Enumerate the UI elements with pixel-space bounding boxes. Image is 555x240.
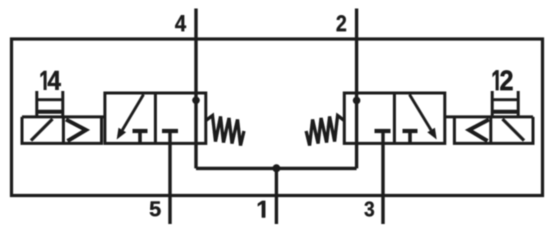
valve V1 blocked port T2 (port 5): [162, 129, 178, 133]
port 3 line: [381, 131, 384, 224]
solenoid coil stroke 12: [503, 119, 525, 141]
pilot arrowhead 14: [66, 120, 86, 142]
port 4 line: [194, 9, 197, 169]
manual override 14: [37, 91, 63, 117]
valve V1 return spring: [206, 116, 244, 146]
pilot arrowhead 12: [469, 120, 489, 142]
solenoid coil stroke 14: [31, 119, 53, 141]
label pilot 12: [493, 70, 513, 90]
label port 2: [337, 15, 346, 31]
label port 3: [364, 201, 373, 216]
wire interconnect 4-2 to 1: [196, 167, 357, 170]
node dot on port 2 line: [353, 97, 361, 105]
valve V2 return spring: [306, 116, 344, 146]
port 2 line: [355, 9, 358, 169]
port 5 line: [168, 131, 171, 224]
port 1 line: [275, 168, 278, 224]
label pilot 14: [41, 71, 61, 90]
solenoid actuator box 12: [445, 117, 533, 143]
node dot on port 4 line: [192, 97, 200, 105]
enclosure frame: [12, 39, 543, 196]
valve V1 blocked port T1: [133, 131, 148, 143]
label port 5: [150, 201, 161, 216]
valve V1 flow arrow: [117, 95, 144, 140]
manual override 12: [492, 91, 518, 117]
valve V2 body: [344, 93, 445, 143]
valve V2 blocked port T3 (port 3): [375, 129, 391, 133]
junction dot port 1: [272, 164, 280, 172]
label port 1: [258, 201, 265, 218]
valve V2 blocked port T4: [403, 131, 418, 143]
valve V2 flow arrow: [410, 95, 437, 140]
label port 4: [175, 15, 186, 31]
solenoid actuator box 14: [22, 117, 105, 143]
valve V1 body: [105, 93, 206, 143]
